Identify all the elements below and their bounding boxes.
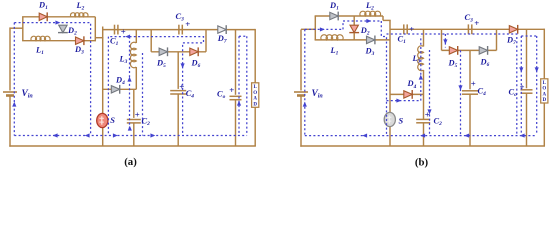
svg-text:C1: C1	[398, 35, 407, 46]
svg-text:O: O	[253, 91, 257, 96]
svg-text:D4: D4	[115, 76, 125, 87]
svg-text:(b): (b)	[415, 157, 429, 169]
svg-text:L: L	[543, 81, 547, 86]
svg-text:L3: L3	[412, 54, 421, 65]
svg-text:D5: D5	[448, 58, 458, 69]
svg-text:+: +	[179, 81, 184, 91]
svg-text:L3: L3	[119, 55, 128, 66]
svg-text:D6: D6	[480, 58, 490, 69]
svg-text:Co: Co	[217, 90, 226, 101]
svg-text:A: A	[542, 92, 546, 97]
svg-text:D1: D1	[329, 1, 339, 12]
svg-text:L2: L2	[76, 1, 85, 12]
svg-text:D: D	[542, 98, 546, 103]
svg-text:D6: D6	[191, 58, 201, 69]
svg-text:Co: Co	[509, 88, 518, 99]
svg-text:+: +	[471, 78, 476, 88]
svg-text:+: +	[121, 26, 126, 36]
svg-text:+: +	[185, 19, 190, 29]
svg-text:+: +	[229, 85, 234, 95]
svg-text:C4: C4	[186, 89, 195, 100]
svg-text:C2: C2	[142, 117, 151, 128]
svg-text:C3: C3	[176, 12, 185, 23]
svg-text:D1: D1	[38, 0, 48, 11]
svg-text:D3: D3	[365, 47, 375, 58]
svg-text:+: +	[425, 110, 430, 120]
svg-text:D2: D2	[360, 26, 370, 37]
svg-text:D3: D3	[74, 45, 84, 56]
svg-text:+: +	[409, 24, 414, 34]
svg-text:(a): (a)	[124, 156, 137, 168]
svg-text:+: +	[474, 18, 479, 28]
svg-text:D: D	[253, 103, 257, 108]
svg-text:S: S	[110, 116, 115, 125]
svg-text:+: +	[520, 82, 525, 92]
svg-text:D7: D7	[217, 34, 227, 45]
svg-text:L1: L1	[35, 45, 44, 56]
svg-text:D2: D2	[67, 26, 77, 37]
svg-text:C4: C4	[478, 86, 487, 97]
svg-text:D7: D7	[506, 36, 516, 47]
svg-text:+: +	[135, 109, 140, 119]
svg-text:L2: L2	[365, 1, 374, 12]
svg-text:L: L	[254, 85, 258, 90]
svg-text:D4: D4	[407, 79, 417, 90]
svg-text:S: S	[399, 117, 404, 126]
svg-text:C3: C3	[465, 13, 474, 24]
svg-text:Vin: Vin	[22, 89, 34, 100]
svg-text:A: A	[253, 97, 257, 102]
svg-text:Vin: Vin	[312, 89, 324, 100]
svg-text:D5: D5	[156, 59, 166, 70]
svg-text:O: O	[542, 87, 546, 92]
svg-text:L1: L1	[330, 46, 339, 57]
svg-text:C2: C2	[434, 116, 443, 127]
svg-text:C1: C1	[110, 37, 119, 48]
